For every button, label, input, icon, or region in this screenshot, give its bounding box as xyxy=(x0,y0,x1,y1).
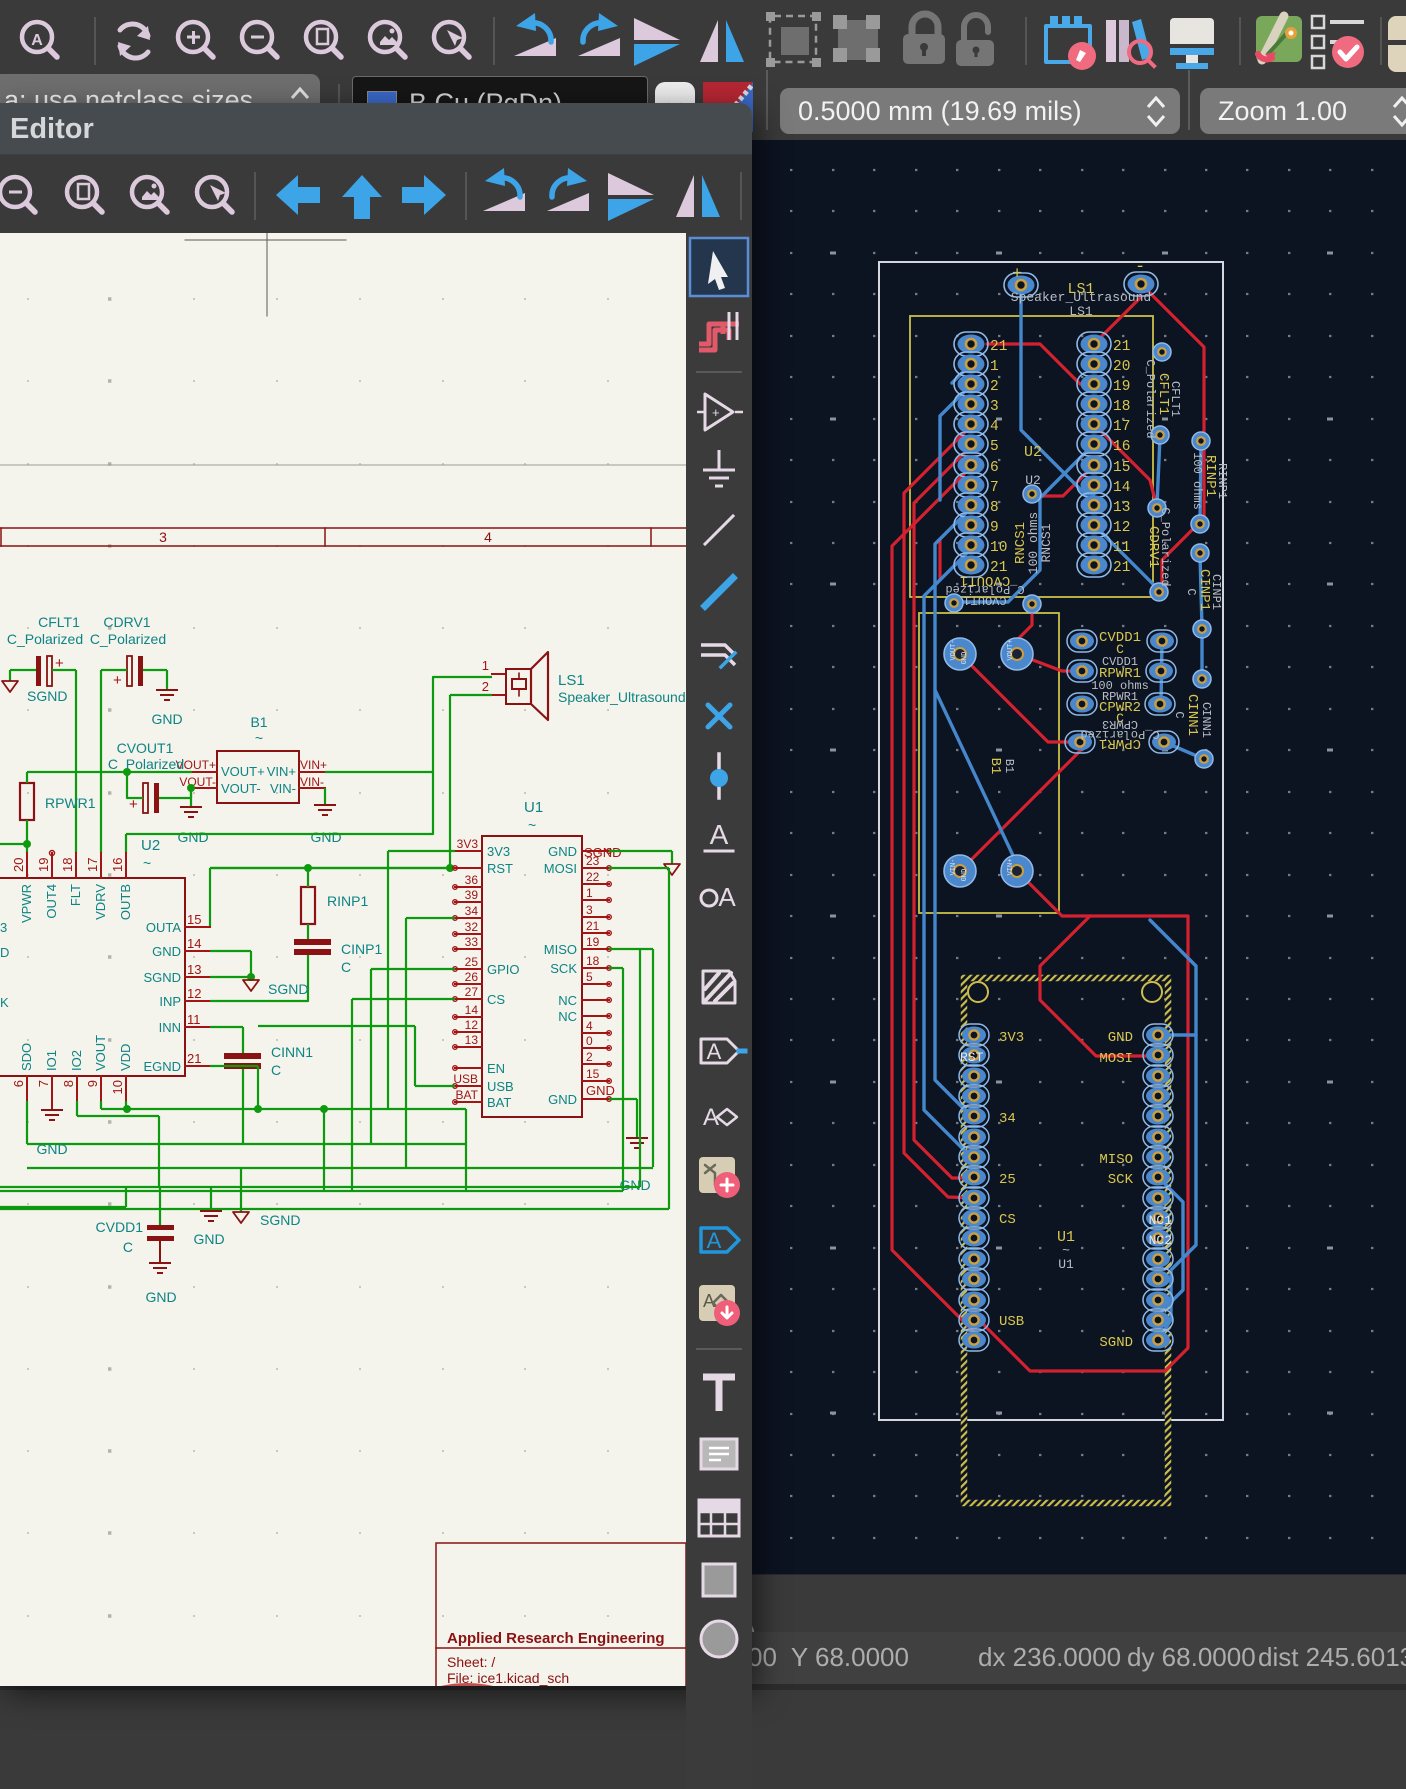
svg-text:NC1: NC1 xyxy=(1149,1213,1173,1228)
svg-text:GND: GND xyxy=(548,844,577,859)
svg-text:A: A xyxy=(31,32,43,49)
svg-text:21: 21 xyxy=(990,339,1007,355)
svg-text:Speaker_Ultrasound: Speaker_Ultrasound xyxy=(558,689,686,705)
svg-text:SDO: SDO xyxy=(19,1043,34,1071)
svg-text:CS: CS xyxy=(999,1212,1016,1228)
svg-text:16: 16 xyxy=(110,858,125,872)
svg-text:INN: INN xyxy=(159,1020,181,1035)
svg-text:MISO: MISO xyxy=(1099,1152,1133,1168)
svg-text:8: 8 xyxy=(990,500,999,516)
svg-text:7: 7 xyxy=(36,1080,51,1087)
svg-text:C_Polarized: C_Polarized xyxy=(7,631,83,647)
svg-text:34: 34 xyxy=(999,1111,1016,1127)
svg-text:OUT4: OUT4 xyxy=(44,884,59,919)
svg-text:CVDD1: CVDD1 xyxy=(96,1219,144,1235)
svg-text:17: 17 xyxy=(1113,419,1130,435)
svg-text:4: 4 xyxy=(990,419,999,435)
svg-text:RINP1: RINP1 xyxy=(1215,463,1229,499)
svg-text:EGND: EGND xyxy=(143,1059,181,1074)
svg-text:~: ~ xyxy=(528,817,536,833)
svg-text:CINN1: CINN1 xyxy=(1199,702,1213,738)
svg-text:SGND: SGND xyxy=(143,970,181,985)
svg-text:11: 11 xyxy=(1113,540,1130,556)
svg-text:RST: RST xyxy=(487,861,513,876)
svg-text:33: 33 xyxy=(465,935,479,949)
svg-text:~: ~ xyxy=(255,730,263,746)
svg-text:SCK: SCK xyxy=(550,961,577,976)
svg-text:20: 20 xyxy=(11,858,26,872)
svg-text:14: 14 xyxy=(1113,480,1130,496)
svg-text:VIN-: VIN- xyxy=(950,859,958,876)
svg-text:B1: B1 xyxy=(1002,759,1016,773)
svg-text:OUTA: OUTA xyxy=(146,920,181,935)
svg-text:15: 15 xyxy=(187,912,201,927)
svg-text:18: 18 xyxy=(60,858,75,872)
svg-text:13: 13 xyxy=(465,1033,479,1047)
svg-text:3: 3 xyxy=(0,920,7,935)
svg-text:11: 11 xyxy=(187,1012,201,1027)
svg-text:21: 21 xyxy=(1113,339,1130,355)
svg-text:GND: GND xyxy=(145,1289,176,1305)
svg-text:VDRV: VDRV xyxy=(93,884,108,920)
svg-text:LS1: LS1 xyxy=(558,672,585,689)
svg-text:3: 3 xyxy=(159,529,167,545)
svg-text:21: 21 xyxy=(586,919,600,933)
svg-text:32: 32 xyxy=(465,920,479,934)
svg-text:GPIO: GPIO xyxy=(487,962,520,977)
svg-text:19: 19 xyxy=(586,935,600,949)
svg-text:6: 6 xyxy=(990,460,999,476)
svg-text:17: 17 xyxy=(85,858,100,872)
svg-text:GND: GND xyxy=(36,1141,67,1157)
svg-text:14: 14 xyxy=(187,936,201,951)
svg-text:VIN-: VIN- xyxy=(270,781,296,796)
svg-text:3: 3 xyxy=(990,399,999,415)
svg-text:U2: U2 xyxy=(1024,444,1042,461)
svg-text:15: 15 xyxy=(1113,460,1130,476)
svg-text:12: 12 xyxy=(1113,520,1130,536)
svg-text:4: 4 xyxy=(586,1019,593,1033)
svg-text:A: A xyxy=(710,819,729,850)
svg-text:USB: USB xyxy=(453,1072,478,1086)
svg-text:OUTB: OUTB xyxy=(118,884,133,920)
svg-text:CINN1: CINN1 xyxy=(271,1044,313,1060)
svg-text:C: C xyxy=(271,1062,281,1078)
svg-text:3V3: 3V3 xyxy=(999,1030,1024,1046)
svg-text:Speaker_Ultrasound: Speaker_Ultrasound xyxy=(1011,290,1151,305)
svg-text:15: 15 xyxy=(586,1067,600,1081)
svg-text:18: 18 xyxy=(586,954,600,968)
svg-text:SCK: SCK xyxy=(1108,1172,1134,1188)
svg-text:U2: U2 xyxy=(1025,473,1041,488)
svg-text:2: 2 xyxy=(990,379,999,395)
svg-text:C: C xyxy=(123,1239,133,1255)
svg-text:22: 22 xyxy=(586,870,600,884)
svg-text:0: 0 xyxy=(586,1034,593,1048)
svg-text:VIN+: VIN+ xyxy=(1007,859,1015,876)
svg-text:C: C xyxy=(1184,588,1198,595)
svg-text:Applied Research Engineering: Applied Research Engineering xyxy=(447,1630,665,1647)
svg-text:Sheet: /: Sheet: / xyxy=(447,1654,495,1670)
svg-text:IO1: IO1 xyxy=(44,1050,59,1071)
svg-text:VIN+: VIN+ xyxy=(300,758,327,772)
svg-text:USB: USB xyxy=(487,1079,514,1094)
svg-text:CPWR1: CPWR1 xyxy=(1099,735,1141,751)
svg-text:C: C xyxy=(1172,711,1186,718)
svg-text:SGND: SGND xyxy=(268,981,308,997)
svg-text:GND: GND xyxy=(961,652,969,665)
svg-text:9: 9 xyxy=(85,1080,100,1087)
svg-text:A: A xyxy=(718,882,736,912)
svg-text:BAT: BAT xyxy=(456,1088,479,1102)
svg-text:GND: GND xyxy=(177,829,208,845)
svg-text:C: C xyxy=(341,959,351,975)
svg-text:7: 7 xyxy=(990,480,999,496)
svg-text:21: 21 xyxy=(187,1051,201,1066)
svg-text:D: D xyxy=(0,945,9,960)
svg-text:B1: B1 xyxy=(250,714,267,730)
svg-text:VPWR: VPWR xyxy=(19,884,34,923)
svg-text:SGND: SGND xyxy=(27,688,67,704)
svg-text:14: 14 xyxy=(465,1003,479,1017)
svg-text:12: 12 xyxy=(187,986,201,1001)
svg-text:3V3: 3V3 xyxy=(457,837,479,851)
svg-text:USB: USB xyxy=(999,1314,1024,1330)
svg-text:A: A xyxy=(707,1228,722,1253)
svg-text:GND: GND xyxy=(193,1231,224,1247)
svg-text:GND: GND xyxy=(310,829,341,845)
svg-text:13: 13 xyxy=(187,962,201,977)
svg-text:A: A xyxy=(703,1291,715,1311)
svg-text:VOUT-: VOUT- xyxy=(221,781,261,796)
svg-text:C_Polarized: C_Polarized xyxy=(1158,507,1172,586)
svg-text:MISO: MISO xyxy=(544,942,577,957)
svg-text:VDD: VDD xyxy=(118,1044,133,1071)
svg-text:VIN+: VIN+ xyxy=(267,764,296,779)
svg-text:CINP1: CINP1 xyxy=(1209,574,1223,610)
svg-text:VOUT-: VOUT- xyxy=(950,639,958,660)
svg-text:CINP1: CINP1 xyxy=(341,941,382,957)
svg-text:GND: GND xyxy=(152,944,181,959)
svg-text:U2: U2 xyxy=(141,837,160,854)
svg-text:U1: U1 xyxy=(1058,1257,1074,1272)
svg-text:26: 26 xyxy=(465,970,479,984)
svg-text:4: 4 xyxy=(484,529,492,545)
svg-text:MOSI: MOSI xyxy=(1099,1051,1133,1067)
svg-text:1: 1 xyxy=(482,658,489,673)
svg-text:FLT: FLT xyxy=(68,884,83,906)
svg-text:2: 2 xyxy=(586,1050,593,1064)
svg-text:INP: INP xyxy=(159,994,181,1009)
svg-text:18: 18 xyxy=(1113,399,1130,415)
svg-text:CFLT1: CFLT1 xyxy=(38,614,80,630)
svg-text:CVOUT1: CVOUT1 xyxy=(963,593,1006,607)
svg-text:LS1: LS1 xyxy=(1069,304,1093,319)
svg-text:6: 6 xyxy=(11,1080,26,1087)
svg-text:A: A xyxy=(707,1039,722,1064)
svg-text:RNCS1: RNCS1 xyxy=(1039,523,1054,562)
svg-text:39: 39 xyxy=(465,888,479,902)
svg-text:27: 27 xyxy=(465,985,479,999)
svg-text:GND: GND xyxy=(1108,1030,1133,1046)
svg-text:~: ~ xyxy=(1062,1243,1070,1258)
svg-text:IO2: IO2 xyxy=(69,1050,84,1071)
svg-text:BAT: BAT xyxy=(487,1095,511,1110)
svg-text:100 ohms: 100 ohms xyxy=(1190,452,1204,510)
svg-text:5: 5 xyxy=(586,970,593,984)
svg-text:VOUT-: VOUT- xyxy=(179,775,216,789)
svg-text:K: K xyxy=(0,995,9,1010)
svg-text:GND: GND xyxy=(151,711,182,727)
svg-text:RINP1: RINP1 xyxy=(327,893,368,909)
svg-text:GND: GND xyxy=(586,1083,615,1098)
svg-text:-: - xyxy=(1135,258,1145,277)
svg-text:MOSI: MOSI xyxy=(544,861,577,876)
svg-text:GND: GND xyxy=(961,869,969,882)
svg-text:GND: GND xyxy=(548,1092,577,1107)
svg-text:16: 16 xyxy=(1113,439,1130,455)
svg-text:SGND: SGND xyxy=(584,845,622,860)
svg-text:+: + xyxy=(1012,265,1022,284)
svg-text:25: 25 xyxy=(999,1172,1016,1188)
svg-text:13: 13 xyxy=(1113,500,1130,516)
svg-text:U1: U1 xyxy=(524,799,543,816)
svg-text:+: + xyxy=(113,672,122,689)
svg-text:VOUT+: VOUT+ xyxy=(221,764,265,779)
svg-text:C_Polarized: C_Polarized xyxy=(108,756,184,772)
svg-text:25: 25 xyxy=(465,955,479,969)
svg-text:19: 19 xyxy=(1113,379,1130,395)
svg-text:12: 12 xyxy=(465,1018,479,1032)
svg-text:3V3: 3V3 xyxy=(487,844,510,859)
svg-text:SGND: SGND xyxy=(1099,1335,1133,1351)
svg-text:3: 3 xyxy=(586,903,593,917)
svg-text:VOUT: VOUT xyxy=(93,1035,108,1071)
svg-text:NC: NC xyxy=(558,1009,577,1024)
svg-text:9: 9 xyxy=(990,520,999,536)
svg-text:NC: NC xyxy=(558,993,577,1008)
svg-text:CVOUT1: CVOUT1 xyxy=(117,740,174,756)
svg-text:CS: CS xyxy=(487,992,505,1007)
svg-text:CDRV1: CDRV1 xyxy=(103,614,150,630)
svg-text:19: 19 xyxy=(36,858,51,872)
svg-text:B1: B1 xyxy=(987,758,1003,775)
svg-text:EN: EN xyxy=(487,1061,505,1076)
svg-text:RPWR1: RPWR1 xyxy=(45,795,96,811)
svg-text:~: ~ xyxy=(143,855,151,871)
svg-text:10: 10 xyxy=(990,540,1007,556)
svg-text:2: 2 xyxy=(482,679,489,694)
svg-text:36: 36 xyxy=(465,873,479,887)
svg-text:34: 34 xyxy=(465,904,479,918)
svg-text:21: 21 xyxy=(1113,560,1130,576)
svg-text:C_Polarized: C_Polarized xyxy=(90,631,166,647)
svg-text:GND: GND xyxy=(619,1177,650,1193)
svg-text:NC2: NC2 xyxy=(1149,1233,1172,1248)
svg-text:+: + xyxy=(712,405,720,420)
svg-text:8: 8 xyxy=(61,1080,76,1087)
svg-text:SGND: SGND xyxy=(260,1212,300,1228)
svg-text:1: 1 xyxy=(586,886,593,900)
svg-text:C_Polarized: C_Polarized xyxy=(1143,359,1157,438)
svg-text:20: 20 xyxy=(1113,359,1130,375)
svg-text:CFLT1: CFLT1 xyxy=(1168,381,1182,417)
svg-text:VOUT+: VOUT+ xyxy=(1007,639,1015,660)
svg-text:5: 5 xyxy=(990,439,999,455)
svg-text:1: 1 xyxy=(990,359,999,375)
svg-text:RST: RST xyxy=(960,1050,984,1065)
svg-text:10: 10 xyxy=(110,1080,125,1094)
svg-text:VIN-: VIN- xyxy=(300,775,324,789)
